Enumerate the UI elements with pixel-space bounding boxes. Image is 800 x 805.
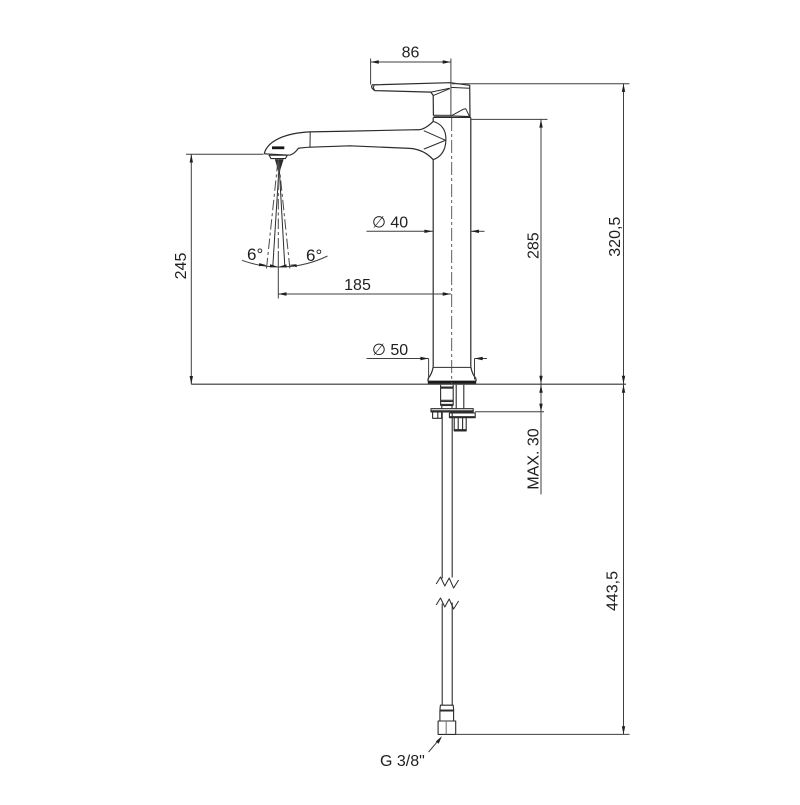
body bulge at spout joint	[433, 121, 446, 159]
dim 245 bottom arrow	[190, 376, 193, 384]
dim 285 top extension	[472, 118, 548, 120]
G3/8 leader arrow	[436, 736, 442, 744]
spout lower inner crease to bulge apex	[424, 140, 446, 149]
arc arrow center right	[279, 264, 287, 267]
mounting nut	[454, 418, 466, 431]
dim 185 right arrow	[443, 292, 451, 295]
fixing stud	[456, 385, 464, 409]
dim 185 left arrow	[278, 292, 286, 295]
cap bottom-right crease	[452, 109, 470, 117]
svg-text:245: 245	[173, 253, 190, 280]
dim dia40 line	[367, 230, 433, 232]
spray right 6deg dash-dot	[279, 161, 290, 270]
dim 245 extension	[186, 153, 264, 155]
hose break lower zigzag	[436, 598, 458, 609]
spout top edge	[264, 121, 433, 153]
svg-text:MAX. 30: MAX. 30	[526, 428, 543, 489]
dim MAX30 vertical line	[540, 384, 542, 494]
faucet body left edge upper	[432, 118, 434, 122]
hose compression ring	[440, 711, 454, 721]
dim 245 line	[190, 154, 192, 384]
spout head seam	[309, 132, 311, 147]
dim MAX30 bottom line	[475, 411, 544, 413]
base flare seam	[433, 366, 471, 368]
handle rear crease lower	[433, 89, 450, 96]
base flare left	[428, 367, 433, 381]
hose break upper zigzag	[436, 577, 458, 588]
dim 443,5 bottom extension	[456, 733, 630, 735]
dim 86 left arrow	[371, 60, 379, 63]
dim 285 top arrow	[539, 119, 542, 127]
dim dia40 right stub	[471, 230, 485, 232]
dim 86 right arrow	[443, 60, 451, 63]
aerator	[269, 155, 287, 158]
hose upper section	[442, 412, 452, 579]
dim dia50 right arrow	[475, 357, 483, 360]
svg-text:G 3/8": G 3/8"	[380, 753, 425, 770]
arc arrow right outer	[289, 264, 297, 267]
arc arrow center left	[270, 264, 278, 267]
dim 185 left extension	[277, 251, 279, 299]
svg-text:6°: 6°	[247, 245, 263, 264]
spout upper inner crease to bulge apex	[424, 131, 446, 141]
dim 285 bottom arrow	[539, 376, 542, 384]
dim MAX30 top arrow	[539, 385, 542, 393]
svg-text:185: 185	[344, 277, 371, 294]
G3/8 leader line	[429, 738, 441, 752]
water jet converging	[273, 159, 279, 266]
dim 245 top arrow	[190, 154, 193, 162]
spray arc	[242, 256, 328, 267]
handle cap top crease	[451, 86, 469, 89]
dim 443,5 bottom arrow	[622, 726, 625, 734]
water jet dark wedge	[275, 159, 283, 171]
handle rear crease upper	[431, 88, 450, 92]
dim dia50 left arrow	[420, 357, 428, 360]
dim 86 left extension	[370, 59, 372, 85]
svg-text:6°: 6°	[306, 246, 322, 265]
spout outlet slot	[272, 146, 284, 149]
dim dia50 right ext down	[474, 359, 476, 380]
dim dia50 line	[367, 358, 429, 360]
svg-text:320,5: 320,5	[607, 217, 624, 257]
faucet body left edge lower	[432, 160, 434, 367]
svg-text:443,5: 443,5	[605, 571, 622, 611]
spray left 6deg dash-dot	[266, 161, 278, 270]
svg-text:285: 285	[526, 232, 543, 259]
dim 285 line	[540, 119, 542, 384]
dim 320,5 bottom arrow	[622, 376, 625, 384]
dim 320,5 top arrow	[622, 84, 625, 92]
clamp block left	[433, 412, 442, 418]
svg-text:∅ 40: ∅ 40	[372, 215, 408, 232]
dim dia50 left ext down	[428, 359, 430, 380]
dim 443,5 line	[623, 384, 625, 734]
hose end collar	[440, 705, 454, 710]
dim 320,5 line	[623, 84, 625, 385]
hose G3/8 nut	[438, 721, 456, 734]
dim dia40 left arrow	[424, 230, 432, 233]
svg-text:86: 86	[402, 45, 420, 62]
dim 86 right extension	[450, 59, 452, 117]
handle lever	[372, 83, 470, 117]
dim MAX30 bottom arrow	[539, 404, 542, 412]
base bottom thick band	[428, 381, 476, 384]
dim dia50 right stub	[475, 358, 488, 360]
threaded shank below base	[441, 385, 454, 409]
spray centerline dash-dot	[277, 160, 279, 252]
spout head bottom face	[264, 154, 290, 155]
hose lower section	[442, 603, 452, 706]
base flare right	[471, 367, 476, 381]
dim 320,5 top extension	[452, 83, 630, 85]
dim 185 line	[278, 293, 451, 295]
water jet right edge	[279, 159, 284, 266]
cap bottom thick line	[434, 115, 452, 117]
body centerline	[451, 118, 453, 384]
svg-text:∅ 50: ∅ 50	[372, 342, 408, 359]
body top edge	[433, 117, 471, 119]
faucet body right edge	[470, 118, 472, 367]
fixing plate right	[449, 413, 475, 418]
arc arrow left outer	[259, 263, 267, 266]
spout bottom edge	[290, 146, 434, 160]
dim 443,5 top arrow	[622, 385, 625, 393]
dim dia40 right arrow	[471, 230, 479, 233]
mounting plate washer	[431, 409, 473, 412]
counter deck line	[191, 383, 626, 385]
handle tip inner line	[373, 86, 374, 90]
dim 86 line	[371, 61, 451, 63]
